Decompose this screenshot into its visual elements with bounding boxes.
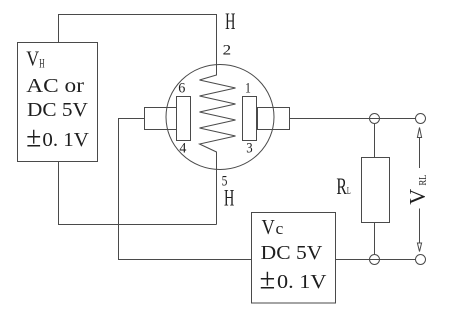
svg-text:AC or: AC or bbox=[26, 75, 84, 97]
svg-text:DC 5V: DC 5V bbox=[27, 100, 88, 121]
svg-text:DC 5V: DC 5V bbox=[261, 242, 323, 264]
wire left electrode to left drop bbox=[119, 119, 252, 260]
load resistor RL leads bbox=[374, 124, 376, 255]
left pin stub bbox=[145, 108, 177, 130]
svg-text:H: H bbox=[224, 185, 234, 210]
wire VC box to bottom terminals bbox=[336, 259, 416, 261]
svg-text:1: 1 bbox=[245, 81, 251, 97]
load resistor RL body bbox=[362, 158, 390, 223]
svg-text:V: V bbox=[26, 49, 39, 71]
right pin stub bbox=[258, 108, 290, 130]
svg-text:2: 2 bbox=[223, 42, 232, 58]
svg-text:4: 4 bbox=[179, 140, 186, 156]
VRL measurement arrow up bbox=[417, 128, 421, 169]
sensor body circle bbox=[166, 65, 274, 170]
svg-text:H: H bbox=[39, 57, 44, 71]
node terminal bottom left bbox=[370, 255, 380, 265]
heater zigzag element bbox=[200, 63, 236, 225]
svg-text:3: 3 bbox=[246, 140, 252, 156]
voltage source VC box bbox=[252, 213, 336, 304]
svg-text:±: ± bbox=[260, 263, 276, 296]
svg-text:0. 1V: 0. 1V bbox=[277, 271, 327, 293]
svg-text:H: H bbox=[225, 9, 235, 34]
wire top rail from VH box to heater pin 2 bbox=[59, 15, 217, 65]
svg-text:0. 1V: 0. 1V bbox=[42, 129, 89, 151]
svg-text:6: 6 bbox=[178, 81, 186, 97]
right electrode plate bbox=[243, 97, 257, 141]
svg-text:L: L bbox=[347, 186, 351, 197]
svg-text:c: c bbox=[276, 219, 284, 238]
svg-text:V: V bbox=[404, 189, 429, 205]
svg-text:±: ± bbox=[26, 121, 41, 154]
node terminal top left bbox=[370, 114, 380, 124]
voltage source VH box bbox=[18, 43, 98, 162]
wire VH bottom lead to lower rail bbox=[59, 162, 217, 225]
node terminal bottom right bbox=[416, 255, 426, 265]
svg-text:R: R bbox=[336, 174, 347, 199]
node terminal top right bbox=[416, 114, 426, 124]
svg-text:RL: RL bbox=[417, 174, 429, 185]
wire right electrode to output terminals bbox=[290, 118, 416, 120]
VRL measurement arrow down bbox=[417, 209, 421, 252]
svg-text:V: V bbox=[262, 215, 275, 239]
left electrode plate bbox=[177, 97, 191, 141]
